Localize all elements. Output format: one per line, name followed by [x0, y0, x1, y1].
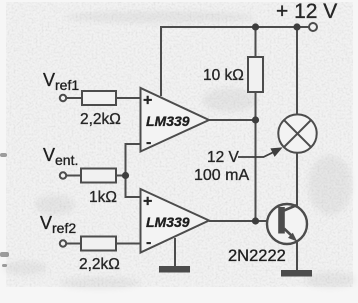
wire R1 to U1 plus input — [116, 97, 141, 99]
terminal Vref2 — [60, 240, 66, 246]
lamp pointer arrow — [238, 149, 281, 158]
wire U2 ground stub — [174, 238, 176, 266]
resistor R1 2.2k — [82, 91, 116, 105]
svg-text:LM339: LM339 — [146, 214, 190, 230]
wire R2 to node C — [116, 175, 126, 177]
svg-text:-: - — [146, 234, 151, 251]
resistor R4 10k (vertical) — [248, 57, 263, 92]
wire rail down to lamp — [296, 27, 298, 116]
resistor R3 2.2k — [81, 237, 116, 251]
terminal Vref1 — [60, 95, 66, 101]
node on rail at R4 — [252, 23, 259, 30]
op-amp U2 — [141, 189, 210, 253]
wire Q1 emitter to ground — [296, 242, 298, 270]
svg-text:2N2222: 2N2222 — [228, 247, 286, 265]
svg-text:2,2kΩ: 2,2kΩ — [79, 256, 120, 273]
Q1 collector stroke — [284, 205, 298, 211]
node on rail at lamp branch — [293, 23, 300, 30]
op-amp U1 — [141, 88, 210, 152]
svg-text:LM339: LM339 — [146, 113, 190, 129]
ground below U2 — [159, 266, 190, 273]
wire R3 to U2 minus input — [116, 243, 141, 245]
wire R4 bottom through node A down to node B — [255, 92, 257, 221]
node A: U1 output / R4 — [252, 116, 259, 123]
wire node C down to U2 plus input — [126, 176, 141, 198]
wire U1 output to node A — [209, 119, 256, 121]
wire U1 power to rail — [160, 26, 162, 96]
svg-text:2,2kΩ: 2,2kΩ — [80, 111, 121, 128]
ground below Q1 emitter — [281, 270, 312, 277]
svg-text:+: + — [143, 92, 152, 109]
wire Vent terminal to R2 — [66, 175, 81, 177]
lamp LP1 — [278, 114, 316, 152]
wire Vref2 terminal to R3 — [66, 243, 81, 245]
wire node C up to U1 minus input — [126, 144, 141, 176]
resistor R2 1k — [81, 169, 116, 183]
transistor Q1 2N2222 — [267, 204, 307, 244]
svg-text:100 mA: 100 mA — [194, 167, 249, 184]
wire lamp to Q1 collector — [296, 152, 298, 208]
terminal Vent — [60, 172, 66, 178]
node B: U2 output / base — [252, 217, 259, 224]
node C: Vent junction — [122, 172, 129, 179]
Q1 base bar — [278, 207, 285, 234]
wire rail to R4 top — [255, 27, 257, 57]
svg-text:+ 12 V: + 12 V — [276, 0, 337, 23]
wire top rail to +12V — [161, 26, 309, 28]
svg-text:+: + — [143, 193, 152, 210]
svg-text:12 V: 12 V — [207, 149, 240, 166]
wire Vref1 terminal to R1 — [66, 97, 82, 99]
power terminal +12V — [309, 23, 317, 31]
Q1 emitter stroke with arrow — [284, 229, 292, 237]
svg-text:-: - — [146, 134, 151, 151]
wire U2 output to Q1 base — [209, 220, 281, 222]
svg-text:10 kΩ: 10 kΩ — [203, 67, 244, 84]
svg-text:1kΩ: 1kΩ — [89, 189, 117, 206]
